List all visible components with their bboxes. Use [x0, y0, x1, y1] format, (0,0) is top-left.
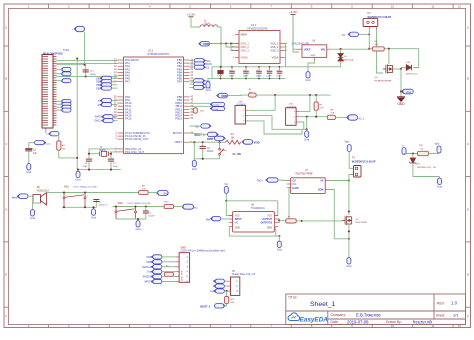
- svg-text:1.0: 1.0: [451, 301, 458, 306]
- wire: [224, 304, 227, 306]
- title block: [286, 294, 466, 325]
- gnd flag (C3): [28, 162, 30, 164]
- svg-text:Комп: Комп: [45, 143, 51, 145]
- diode D4 SM4T24CA TVS: [340, 49, 342, 54]
- svg-text:22pF: 22pF: [113, 166, 119, 168]
- svg-text:IR25750LTRPBF: IR25750LTRPBF: [296, 173, 314, 175]
- svg-text:A: A: [5, 25, 7, 29]
- svg-text:10K: 10K: [330, 113, 334, 115]
- svg-text:4.7uF: 4.7uF: [217, 76, 223, 78]
- svg-text:Cool: Cool: [214, 109, 219, 111]
- gnd flag (decoupling): [207, 80, 209, 82]
- svg-text:GND: GND: [311, 55, 316, 57]
- wire: [293, 17, 299, 52]
- transistor Q2 IRL3705NS: [342, 216, 352, 225]
- svg-text:100nF_1: 100nF_1: [99, 205, 108, 207]
- wire top rail SW1: [61, 192, 139, 194]
- svg-text:Mat: Mat: [206, 218, 210, 221]
- svg-text:OUTPUT: OUTPUT: [263, 219, 273, 221]
- svg-text:Rт: Rт: [288, 217, 290, 219]
- svg-text:VDD_3: VDD_3: [241, 49, 250, 53]
- wire: [231, 44, 239, 51]
- svg-text:Gnd: Gnd: [30, 216, 35, 220]
- net port Comp (left): [35, 141, 45, 145]
- wire: [84, 32, 86, 65]
- capacitor C5 100nF: [245, 67, 247, 70]
- transistor Q6 IRLR8726TRPBF: [383, 64, 393, 73]
- svg-text:BZV55-C10: BZV55-C10: [406, 73, 418, 75]
- wire: [190, 80, 194, 82]
- svg-text:VDD: VDD: [221, 94, 227, 98]
- svg-text:2105-1*6P-L(+/-)5MM(коль)old p: 2105-1*6P-L(+/-)5MM(коль)old plated blac…: [180, 250, 225, 253]
- svg-text:E: E: [5, 273, 7, 277]
- wire: [256, 94, 330, 96]
- gnd flag (NRST cluster): [193, 142, 195, 159]
- wire COM: [329, 190, 349, 239]
- svg-text:Vips: Vips: [435, 143, 440, 146]
- wire: [57, 59, 118, 61]
- wire: [112, 100, 118, 102]
- wire: [162, 281, 176, 283]
- svg-text:AC_L: AC_L: [358, 117, 365, 120]
- wire: [194, 155, 219, 159]
- wire: [57, 106, 63, 108]
- capacitor C6 100nF: [258, 67, 260, 70]
- wire: [162, 271, 176, 273]
- svg-text:12: 12: [458, 4, 462, 8]
- svg-text:Drawn By:: Drawn By:: [386, 320, 402, 324]
- wire bottom rail SW1: [62, 206, 96, 208]
- wire P2 pin1 down: [368, 30, 370, 49]
- svg-text:GND: GND: [397, 102, 405, 106]
- svg-text:REV:: REV:: [437, 301, 445, 305]
- svg-text:HCM1201A: HCM1201A: [37, 189, 49, 192]
- svg-text:MOSI: MOSI: [206, 64, 212, 66]
- wire: [278, 179, 287, 182]
- net port DB6 (connector side): [62, 105, 71, 109]
- svg-text:2: 2: [87, 196, 88, 198]
- wire: [57, 100, 63, 102]
- resistor R12 20K: [226, 291, 228, 297]
- wire: [113, 116, 117, 118]
- svg-text:freezer.nik: freezer.nik: [413, 320, 433, 325]
- switch AC_SW: [219, 142, 221, 148]
- svg-text:CN1: CN1: [238, 101, 243, 103]
- svg-text:Company:: Company:: [331, 313, 347, 317]
- wire D4 to gnd rail: [286, 61, 341, 67]
- svg-text:GND: GND: [235, 227, 240, 229]
- gnd flag (Q2): [348, 256, 350, 258]
- svg-text:VS: VS: [320, 180, 324, 183]
- net port SCK: [194, 59, 204, 63]
- svg-text:C7: C7: [229, 70, 231, 72]
- net port MOSI: [194, 62, 204, 66]
- wire: [112, 84, 118, 86]
- net port EN: [62, 79, 71, 83]
- wire: [162, 266, 176, 268]
- svg-text:VOUT: VOUT: [304, 48, 311, 51]
- wire: [57, 62, 118, 64]
- svg-text:E: E: [467, 273, 469, 277]
- wire: [218, 27, 221, 67]
- svg-text:100nF: 100nF: [229, 76, 235, 78]
- wire decoupling bottom rail: [212, 78, 286, 80]
- wire: [335, 116, 348, 118]
- svg-text:AC_SW: AC_SW: [232, 153, 241, 156]
- resistor R4 100: [58, 136, 60, 141]
- svg-text:VSS_1: VSS_1: [270, 42, 279, 46]
- net port Dis1 (R10): [183, 204, 194, 209]
- capacitor C1 100nF_1: [95, 199, 97, 207]
- svg-text:Dis1: Dis1: [193, 206, 198, 209]
- svg-text:VSS_3: VSS_3: [270, 49, 279, 53]
- svg-text:22pF: 22pF: [83, 166, 89, 168]
- svg-text:10: 10: [391, 4, 395, 8]
- wire decoupling top rail: [212, 66, 286, 68]
- svg-text:~2: ~2: [222, 155, 224, 157]
- wire: [112, 77, 118, 79]
- wire: [413, 163, 440, 177]
- svg-text:VDD: VDD: [235, 215, 240, 217]
- svg-text:SWCLK: SWCLK: [142, 265, 152, 269]
- svg-text:VDDA: VDDA: [241, 56, 248, 60]
- net port DB7 (connector side): [62, 108, 71, 112]
- wire vertical bus: [76, 59, 78, 170]
- svg-text:VIN: VIN: [321, 48, 325, 51]
- svg-text:100nF: 100nF: [243, 76, 249, 78]
- svg-text:C5: C5: [243, 70, 245, 72]
- wire: [148, 192, 158, 194]
- svg-text:Gnd: Gnd: [306, 78, 311, 82]
- svg-text:VDD: VDD: [254, 141, 261, 145]
- net port VDD (U2): [200, 41, 210, 46]
- wire: [57, 75, 118, 77]
- net port RW: [62, 72, 71, 76]
- wire Q2 source to gnd: [348, 224, 350, 256]
- svg-text:PC15-OSC32_OUT: PC15-OSC32_OUT: [125, 137, 149, 141]
- svg-text:BZX384-C5V1_115: BZX384-C5V1_115: [417, 167, 437, 169]
- gnd flag (U8): [278, 240, 280, 242]
- svg-text:GND: GND: [267, 227, 272, 229]
- svg-text:COM: COM: [318, 189, 324, 192]
- diode D2 BZX384-C5V1_115 zener: [412, 154, 414, 158]
- gnd flag (sensors): [306, 129, 308, 131]
- wire: [210, 43, 240, 45]
- wire: [190, 66, 195, 68]
- wire: [224, 285, 226, 287]
- wire Q2 drain: [348, 181, 350, 215]
- wire ground rail (crystal): [78, 169, 121, 171]
- svg-text:Sheet:: Sheet:: [436, 313, 445, 317]
- wire: [33, 203, 41, 208]
- svg-text:Dis2: Dis2: [407, 92, 412, 94]
- svg-text:Gnd: Gnd: [192, 167, 197, 171]
- svg-text:WJ2EDGVC-5.08-2P: WJ2EDGVC-5.08-2P: [352, 160, 376, 163]
- svg-text:VDD: VDD: [267, 215, 272, 217]
- net port Cool: [212, 107, 225, 111]
- capacitor C7 22pF: [108, 158, 114, 160]
- svg-text:C11: C11: [277, 70, 280, 72]
- wire: [57, 80, 63, 82]
- svg-text:Gnd: Gnd: [437, 185, 442, 189]
- capacitor C6 22pF: [86, 158, 92, 160]
- gnd flag (crystal): [77, 170, 79, 172]
- EasyEDA logo: [288, 313, 300, 321]
- svg-text:CN2: CN2: [289, 104, 294, 106]
- capacitor C11 100nF: [279, 67, 281, 70]
- wire: [306, 117, 308, 130]
- svg-text:100nF: 100nF: [90, 74, 97, 76]
- wire: [162, 261, 176, 263]
- wire OSC_IN: [89, 149, 118, 158]
- svg-text:4.7K: 4.7K: [319, 108, 324, 110]
- svg-text:KLS7-TS6601-13.0-180: KLS7-TS6601-13.0-180: [128, 203, 152, 205]
- wire: [59, 150, 78, 158]
- wire drain loop: [389, 49, 419, 68]
- svg-text:VBAT: VBAT: [241, 33, 248, 37]
- wire: [112, 87, 118, 89]
- net port AC_L: [348, 115, 358, 120]
- svg-text:Gnd: Gnd: [136, 227, 141, 231]
- wire: [190, 87, 194, 89]
- wire: [190, 102, 212, 104]
- gnd flag (SW2): [137, 219, 139, 221]
- svg-text:VSSA: VSSA: [272, 56, 279, 60]
- svg-text:C8: C8: [218, 70, 220, 72]
- capacitor C10 100nF: [269, 67, 271, 70]
- wire: [299, 95, 310, 111]
- svg-text:Gnd: Gnd: [277, 248, 282, 252]
- wire VOUT to +3.3V: [293, 17, 296, 49]
- svg-text:NRST: NRST: [175, 140, 183, 144]
- svg-text:TC4420COA: TC4420COA: [251, 207, 265, 210]
- svg-text:VDD: VDD: [203, 42, 209, 46]
- svg-text:100nF: 100nF: [256, 76, 262, 78]
- svg-text:IRLR8726TRPBF: IRLR8726TRPBF: [375, 80, 393, 82]
- svg-text:TITLE:: TITLE:: [288, 296, 298, 300]
- svg-text:VSS_2: VSS_2: [270, 45, 279, 49]
- svg-text:C10: C10: [267, 70, 270, 72]
- svg-text:GATE: GATE: [292, 187, 299, 190]
- wire U8 VDD rail: [226, 200, 277, 202]
- svg-text:2019-07-08: 2019-07-08: [347, 320, 369, 325]
- svg-text:Header Male 2.54_1x3: Header Male 2.54_1x3: [232, 273, 256, 276]
- wire gate to Q2: [302, 220, 343, 222]
- svg-text:EasyEDA: EasyEDA: [300, 317, 329, 324]
- svg-text:1/1: 1/1: [453, 313, 459, 318]
- wire: [57, 68, 63, 70]
- svg-text:SM4T24CA: SM4T24CA: [342, 58, 354, 61]
- svg-text:SCK: SCK: [206, 61, 211, 63]
- wire Q6 drain: [388, 49, 390, 64]
- svg-text:20K: 20K: [375, 44, 379, 46]
- svg-text:ТАСч: ТАСч: [257, 180, 264, 183]
- wire: [116, 218, 146, 220]
- svg-text:STM32F103C8T6: STM32F103C8T6: [148, 52, 170, 56]
- wire: [113, 206, 165, 208]
- net port Comp: [212, 102, 225, 106]
- wire: [28, 195, 33, 197]
- wire: [190, 60, 195, 62]
- svg-text:SW2: SW2: [118, 203, 124, 205]
- svg-text:100nF: 100nF: [266, 76, 272, 78]
- wire: [112, 104, 118, 106]
- svg-text:PD1-OSC_OUT: PD1-OSC_OUT: [125, 150, 144, 154]
- wire: [190, 105, 212, 107]
- svg-text:PB7: PB7: [177, 80, 183, 84]
- wire Q6 source to gnd: [393, 68, 402, 70]
- svg-text:100nF: 100nF: [207, 151, 214, 153]
- wire: [249, 116, 307, 130]
- wire: [225, 193, 227, 200]
- wire: [47, 192, 50, 194]
- svg-text:Е.В.Тяжелов: Е.В.Тяжелов: [356, 313, 381, 318]
- svg-text:1uF: 1uF: [33, 153, 38, 155]
- svg-text:CS: CS: [206, 67, 210, 69]
- ground GND (Q6): [397, 97, 405, 102]
- wire: [57, 103, 63, 105]
- svg-text:100nF: 100nF: [148, 215, 155, 217]
- net port Beep: [194, 86, 204, 90]
- capacitor C3 1uF: [29, 142, 35, 144]
- net port VDD (NRST pullup): [243, 140, 253, 145]
- wire: [174, 206, 184, 208]
- wire: [190, 83, 194, 85]
- svg-text:~1: ~1: [222, 149, 224, 151]
- net port VDD (sensors): [218, 93, 228, 98]
- gnd flag (speaker): [32, 208, 34, 210]
- svg-text:F: F: [5, 314, 7, 318]
- svg-text:100nF: 100nF: [276, 76, 282, 78]
- net port CS: [194, 65, 204, 69]
- wire VSS rail: [284, 44, 286, 67]
- wire: [191, 19, 200, 27]
- wire U8 output junction: [278, 219, 279, 222]
- svg-text:Dis2: Dis2: [163, 192, 168, 195]
- gnd flag (SW1): [93, 207, 95, 209]
- svg-text:SWD: SWD: [180, 247, 186, 250]
- capacitor C8 4.7uF: [220, 67, 222, 70]
- wire: [113, 120, 117, 122]
- net port Dis2 (Q6): [400, 90, 402, 92]
- wire: [224, 280, 226, 282]
- svg-text:SWDIO: SWDIO: [95, 116, 103, 119]
- svg-text:B: B: [467, 77, 469, 81]
- svg-text:+3.3V: +3.3V: [187, 13, 195, 17]
- wire GATE: [287, 188, 302, 221]
- svg-text:Gnd: Gnd: [206, 88, 211, 92]
- svg-text:C6: C6: [256, 70, 258, 72]
- svg-text:Date:: Date:: [331, 320, 339, 324]
- wire: [162, 256, 176, 258]
- svg-text:A: A: [467, 25, 469, 29]
- svg-text:SWCLK: SWCLK: [94, 120, 103, 123]
- svg-text:Gnd: Gnd: [304, 137, 309, 141]
- net port DB4 (connector side): [62, 99, 71, 103]
- wire: [190, 133, 208, 134]
- svg-text:VDD_1: VDD_1: [241, 42, 250, 46]
- wire: [224, 290, 226, 292]
- wire: [190, 63, 195, 65]
- net port Vin (on wire): [349, 32, 358, 36]
- wire NRST net: [190, 141, 226, 143]
- net port Dis2: [194, 82, 204, 86]
- wire: [249, 95, 275, 110]
- net port DB5 (connector side): [62, 102, 71, 106]
- capacitor C7 100nF: [231, 67, 233, 70]
- svg-text:SW1: SW1: [64, 186, 70, 188]
- svg-text:KLS7-TS6601-13.0-180: KLS7-TS6601-13.0-180: [74, 186, 98, 188]
- svg-text:Sheet_1: Sheet_1: [310, 301, 336, 308]
- wire: [190, 125, 201, 127]
- wire: [89, 153, 100, 155]
- wire: [57, 73, 63, 75]
- svg-text:BOOT0: BOOT0: [173, 131, 183, 135]
- svg-text:PA15: PA15: [125, 117, 132, 121]
- wire sensor data rail: [299, 116, 327, 118]
- wire: [429, 153, 440, 155]
- wire: [299, 122, 304, 129]
- wire Vin to P2: [356, 33, 369, 35]
- svg-text:CS: CS: [292, 180, 296, 183]
- svg-text:Vips: Vips: [345, 141, 351, 144]
- svg-text:Gnd: Gnd: [346, 264, 351, 268]
- svg-text:2105-1*6P: 2105-1*6P: [182, 270, 184, 281]
- wire U8 gnd: [229, 227, 276, 237]
- resistor R13: [193, 108, 197, 113]
- wire: [112, 81, 118, 83]
- wire: [57, 109, 63, 111]
- wire: [249, 121, 302, 134]
- svg-text:NRST: NRST: [207, 138, 214, 141]
- wire VS: [329, 180, 349, 182]
- svg-text:N/C: N/C: [292, 183, 296, 186]
- capacitor C2 100nF: [145, 207, 147, 211]
- svg-text:1: 1: [61, 196, 62, 198]
- svg-text:OUTPUT/2: OUTPUT/2: [261, 223, 273, 225]
- wire: [228, 94, 249, 97]
- svg-text:LCD1: LCD1: [63, 49, 70, 52]
- wire VIN rail to P2: [330, 48, 369, 50]
- svg-text:NC: NC: [235, 223, 239, 225]
- svg-text:Gnd: Gnd: [76, 178, 81, 182]
- wire: [221, 218, 229, 220]
- wire: [57, 64, 85, 66]
- svg-text:IRL3705NS: IRL3705NS: [356, 222, 368, 224]
- svg-text:VDD_2: VDD_2: [241, 45, 250, 49]
- gnd flag (U6): [308, 60, 314, 70]
- capacitor C4 100nF: [202, 142, 204, 146]
- svg-text:Gnd: Gnd: [91, 215, 96, 219]
- gnd flag (D2): [439, 177, 441, 179]
- svg-text:11: 11: [431, 4, 434, 8]
- svg-text:BOOT_0: BOOT_0: [200, 305, 211, 308]
- MCU U1 pins: [118, 60, 190, 152]
- net port RS: [62, 67, 71, 71]
- wire: [226, 44, 239, 48]
- svg-text:+3.3V: +3.3V: [289, 10, 297, 14]
- svg-text:20K: 20K: [231, 302, 235, 304]
- net flag Tx top-left: [76, 26, 85, 31]
- wire: [162, 276, 164, 278]
- svg-text:Gnd: Gnd: [26, 170, 31, 174]
- wire OSC_OUT: [111, 152, 118, 158]
- svg-text:F: F: [467, 314, 469, 318]
- svg-text:VDD: VDD: [46, 128, 48, 133]
- net port Dis2 (R9): [158, 190, 169, 195]
- capacitor C12: [85, 65, 87, 77]
- svg-text:B: B: [5, 77, 7, 81]
